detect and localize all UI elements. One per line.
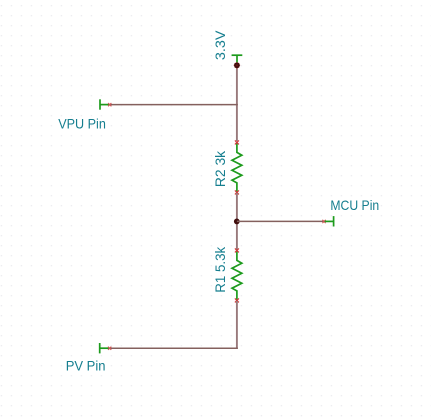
pin PV bbox=[100, 343, 112, 353]
label MCU Pin bbox=[330, 197, 379, 213]
wire: R1 pin 2 to PV pin bbox=[110, 301, 238, 349]
svg-text:R2 3k: R2 3k bbox=[212, 150, 228, 187]
svg-text:MCU Pin: MCU Pin bbox=[330, 197, 379, 213]
junction at 3.3V node bbox=[234, 62, 240, 68]
label VPU Pin bbox=[58, 115, 106, 131]
pin VPU bbox=[100, 99, 111, 109]
wire: VPU pin to net bbox=[110, 104, 238, 106]
resistor R2 bbox=[232, 140, 242, 194]
svg-text:VPU Pin: VPU Pin bbox=[58, 115, 106, 131]
wire: 3.3V power to R2 pin 1 bbox=[236, 65, 238, 141]
label R1 5.3k bbox=[212, 246, 228, 293]
svg-text:3.3V: 3.3V bbox=[212, 30, 228, 60]
power symbol 3.3V bbox=[232, 55, 243, 63]
label R2 3k bbox=[212, 150, 228, 187]
label PV Pin bbox=[66, 357, 106, 373]
resistor R1 bbox=[232, 248, 242, 302]
wire: R2 pin 2 to R1 pin 1 bbox=[236, 193, 238, 250]
svg-text:PV Pin: PV Pin bbox=[66, 357, 106, 373]
pin MCU bbox=[322, 216, 333, 226]
label 3.3V bbox=[212, 30, 228, 60]
wire: junction to MCU pin bbox=[237, 220, 324, 222]
svg-text:R1 5.3k: R1 5.3k bbox=[212, 246, 228, 293]
junction node MCU net bbox=[234, 219, 240, 225]
